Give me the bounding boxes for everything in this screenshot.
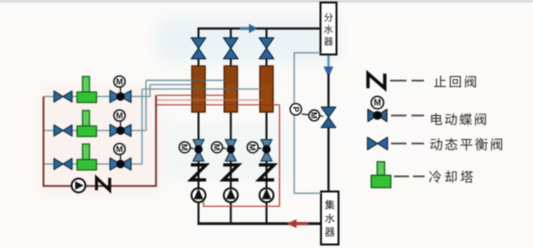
- electric butterfly valve column 1: [179, 140, 204, 162]
- legend leader line 1: [390, 80, 424, 82]
- legend text 止回阀: [434, 76, 446, 87]
- wire: tower row 2 supply line: [44, 80, 146, 130]
- legend leader line 4: [394, 175, 425, 177]
- pump P0 (tower loop): [72, 179, 86, 193]
- electric butterfly valve row 2 (M actuator): [110, 110, 131, 137]
- flow arrow on supply header: [240, 24, 258, 33]
- pump column 3: [260, 188, 274, 202]
- legend text 电动蝶阀: [431, 113, 442, 125]
- wire: red return drop to pump row: [204, 105, 280, 207]
- wire: controller to actuator link: [302, 113, 309, 116]
- wire: condenser supply branch lines (teal): [150, 84, 192, 86]
- cooling tower CT3: [77, 144, 97, 170]
- pump column 2: [224, 188, 238, 202]
- valve: manual butterfly valve row 2: [54, 125, 72, 136]
- svg-text:M: M: [116, 77, 123, 87]
- check valve Z column 1: [191, 165, 206, 180]
- balancing valve top column 1: [191, 38, 206, 59]
- wire: tower row 3 supply line: [44, 89, 142, 164]
- legend leader line 3: [391, 143, 424, 145]
- legend dynamic balancing valve symbol: [368, 137, 388, 149]
- bypass valve actuator M: [309, 110, 320, 121]
- top edge gray strip: [0, 0, 533, 2]
- wire: condenser return red lines: [157, 94, 192, 96]
- legend cooling tower symbol: [371, 162, 391, 188]
- legend electric butterfly valve symbol: [368, 96, 387, 121]
- svg-text:M: M: [374, 98, 381, 108]
- wire: dP sensor line upper (to distributor): [294, 53, 320, 104]
- svg-text:M: M: [116, 111, 123, 121]
- distributor box 分水器: [321, 3, 337, 55]
- pump column 1: [192, 188, 206, 202]
- valve: manual butterfly valve row 1: [54, 91, 72, 102]
- chiller condenser HX3: [260, 66, 273, 112]
- valve: manual butterfly valve row 3: [54, 159, 72, 170]
- electric butterfly valve column 2: [212, 140, 237, 162]
- svg-text:M: M: [116, 144, 123, 154]
- svg-text:M: M: [180, 144, 189, 151]
- svg-text:P: P: [291, 107, 300, 113]
- cooling tower CT1: [77, 77, 97, 103]
- cooling tower CT2: [77, 111, 97, 137]
- legend check valve symbol N: [368, 74, 385, 89]
- check valve Z column 2: [223, 165, 238, 180]
- legend leader line 2: [391, 115, 424, 117]
- wire: return manifold to collector: [198, 222, 322, 225]
- electric butterfly valve row 3 (M actuator): [110, 143, 131, 170]
- balancing valve top column 3: [259, 38, 274, 59]
- flow arrow on return manifold (red, pointing left): [287, 219, 309, 228]
- check valve N (tower loop): [97, 178, 110, 190]
- electric butterfly valve row 1 (M actuator): [110, 76, 131, 103]
- chiller condenser HX1: [192, 66, 205, 112]
- wire: tower row 1 supply line: [44, 85, 150, 97]
- electric butterfly valve column 3: [247, 140, 272, 162]
- wire: chiller column 3 riser: [266, 29, 268, 225]
- wire: condenser return loop (maroon): [44, 95, 157, 186]
- dP controller P: [290, 104, 301, 115]
- bypass control valve: [321, 107, 336, 128]
- wire: dP sensor line lower (to collector): [294, 115, 321, 193]
- wire: bypass pipe: [327, 74, 329, 108]
- chiller condenser HX2: [224, 66, 237, 112]
- flow arrow below distributor: [324, 56, 334, 78]
- svg-text:M: M: [212, 144, 221, 151]
- wire: actuator to valve link: [320, 115, 323, 118]
- balancing valve top column 2: [224, 38, 239, 59]
- wire: chilled water supply header: [198, 27, 321, 29]
- svg-text:M: M: [309, 112, 318, 119]
- legend text 冷却塔: [429, 171, 441, 183]
- wire: chiller column 2 riser: [230, 29, 232, 225]
- wire: chiller column 1 riser: [198, 29, 200, 225]
- collector box 集水器: [321, 192, 339, 245]
- check valve Z column 3: [259, 165, 274, 180]
- legend text 动态平衡阀: [430, 138, 442, 150]
- svg-text:M: M: [248, 144, 257, 151]
